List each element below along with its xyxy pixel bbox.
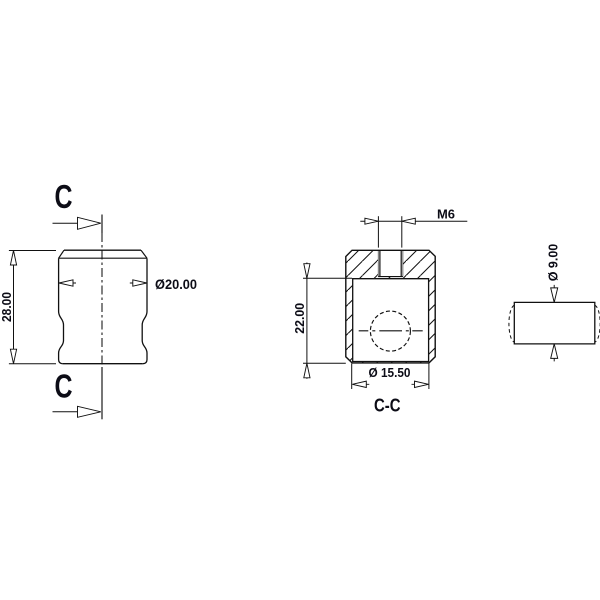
part bottom edge [63,363,143,365]
section arrow bottom line [53,411,100,413]
svg-text:Ø 15.50: Ø 15.50 [369,366,411,380]
part left edge with neck [59,258,64,364]
dimension D20 arrow left [59,280,76,286]
dimension 22.00 extension line top [303,277,352,279]
part chamfer left [59,250,64,258]
dimension 22.00 line [306,263,308,379]
thread hole minor diameter left [379,250,381,276]
svg-text:22.00: 22.00 [293,303,307,334]
section line bottom solid segment [101,367,103,419]
part chamfer base line [59,257,147,259]
dimension 28.00 extension line bottom [9,363,56,365]
section line top solid segment [101,215,103,234]
section arrow top head [78,217,101,229]
pin rectangle [514,302,595,344]
section arrow bottom head [78,406,101,417]
inner cavity rectangle [353,279,429,362]
part top face edge [64,249,141,251]
thread hole major diameter right (thin) [402,250,404,276]
center line left view (dash-dot) [101,233,103,367]
svg-text:Ø 9.00: Ø 9.00 [545,244,560,282]
dimension D9 arrow bottom [551,344,558,362]
dimension M6 extension line left [377,216,379,247]
dimension 22.00 extension line bottom [303,362,346,364]
svg-text:Ø20.00: Ø20.00 [155,277,197,292]
outer block outline [346,250,435,363]
dimension M6 extension line right [401,216,403,247]
dimension D15.50 arrow left [352,381,369,387]
dimension D15.50 arrow right [412,381,429,387]
dimension D20 arrow right [130,280,147,286]
part right edge with neck [142,258,147,364]
thread hole major diameter left (thin) [377,250,379,276]
dimension M6 leader line [360,220,467,222]
dimension 28.00 extension line top [9,250,56,252]
pin left dashed arc [509,305,514,342]
svg-text:C: C [55,368,73,405]
dimension D15.50 extension line right [428,364,430,390]
svg-text:M6: M6 [437,207,455,221]
svg-text:C-C: C-C [374,396,401,416]
pin right dashed arc [595,305,600,342]
svg-text:28.00: 28.00 [0,292,14,322]
section arrow top line [53,222,100,224]
dimension 28.00 arrow bottom [10,349,16,364]
bore center line horizontal [359,330,423,332]
dimension 28.00 line [13,251,15,364]
dimension D15.50 extension line left [351,364,353,390]
dimension M6 arrow right [402,218,416,224]
part chamfer right [141,250,147,258]
dimension D9 arrow top [551,285,558,303]
dimension M6 arrow left [365,218,379,224]
bore circle (dashed) [370,311,410,351]
thread hole bottom [378,276,403,278]
dimension 28.00 arrow top [10,251,16,266]
hatched section area [346,250,435,363]
svg-text:C: C [55,178,73,215]
dimension 22.00 arrow top [304,264,310,279]
dimension 22.00 arrow bottom [304,363,310,378]
thread hole minor diameter right [400,250,402,276]
